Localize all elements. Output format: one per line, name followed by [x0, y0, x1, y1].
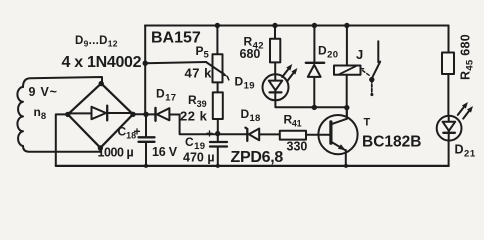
diode inside bridge: [92, 107, 107, 119]
svg-text:4 x 1N4002: 4 x 1N4002: [62, 54, 142, 71]
node ground C19: [216, 164, 220, 168]
svg-text:330: 330: [287, 140, 308, 154]
node mid rail collector: [344, 105, 349, 110]
wire R42 branch from rail: [274, 26, 276, 39]
LED D21 light arrow 1: [462, 102, 468, 109]
resistor R39 body: [213, 92, 223, 119]
capacitor C19 plates: [210, 141, 227, 143]
svg-text:9 V~: 9 V~: [29, 85, 58, 99]
LED D21 arrow shafts: [458, 106, 465, 115]
svg-text:T: T: [364, 117, 371, 129]
svg-text:47 k: 47 k: [185, 66, 213, 81]
wire bridge internal right: [108, 112, 132, 114]
wire left vertical from rail to bridge output: [144, 26, 146, 115]
node rail P5: [215, 23, 220, 28]
transistor collector: [331, 108, 347, 125]
relay J coil from rail: [346, 26, 348, 66]
svg-text:16 V: 16 V: [152, 145, 178, 159]
LED D21 internal diode: [448, 116, 450, 141]
transistor T BC182B circle: [318, 115, 357, 154]
P5 wiper arrowhead: [221, 71, 227, 76]
wire R41 to base: [306, 134, 330, 136]
wire P5 top from rail: [216, 26, 218, 55]
capacitor C18 plates: [139, 136, 155, 138]
node ground emitter: [344, 164, 348, 168]
svg-text:22 k: 22 k: [180, 109, 208, 124]
LED D19 light arrow 1: [286, 64, 292, 71]
switch J fixed contact: [377, 41, 379, 62]
arrows and arrowheads (filled): [221, 64, 473, 150]
svg-text:680: 680: [240, 47, 261, 61]
svg-text:+: +: [134, 125, 141, 139]
node rail D20: [312, 23, 317, 28]
emitter arrowhead: [338, 144, 346, 150]
node wiper feed tap: [143, 61, 148, 66]
wire bottom ground rail: [56, 165, 449, 167]
wire bridge right corner to node A: [133, 113, 146, 115]
wire top rail: [145, 25, 449, 27]
wire node A to wiper feed: [145, 62, 206, 63]
switch J moving arm: [372, 62, 381, 79]
transistor base bar: [329, 122, 332, 143]
potentiometer P5 wiper arrow diagonal: [206, 62, 224, 74]
LED D21 circle: [437, 116, 462, 141]
svg-text:BC182B: BC182B: [362, 134, 421, 151]
wire R39 to node B: [217, 119, 219, 133]
wire middle rail: [275, 100, 346, 107]
zener diode D18 ZPD6.8: [246, 128, 248, 141]
diode D20 from rail: [313, 26, 315, 63]
node ground C18: [144, 164, 148, 168]
wire transformer top lead to bridge top corner: [23, 77, 102, 87]
wire transformer bottom lead to bridge bottom corner: [23, 146, 100, 152]
LED D19 arrow shafts: [282, 69, 289, 78]
node B R39/C19/D18: [215, 131, 220, 136]
LED D19 internal diode: [274, 74, 276, 100]
resistor R41 body: [280, 131, 306, 140]
svg-text:470 µ: 470 µ: [183, 151, 215, 165]
diode D17: [146, 113, 155, 115]
switch J lower stub: [371, 80, 373, 95]
wire bridge left corner to ground drop: [56, 114, 68, 165]
wire D17 down to node B rail: [180, 115, 247, 135]
node switch stub end: [370, 93, 373, 96]
svg-text:ZPD6,8: ZPD6,8: [231, 149, 284, 166]
node bridge right: [130, 112, 135, 117]
wire R42 to LED D19: [274, 62, 276, 74]
svg-text:BA157: BA157: [151, 30, 201, 47]
relay contact dashed link: [363, 71, 370, 76]
svg-text:J: J: [356, 47, 363, 62]
wire R45 to LED D21: [447, 74, 449, 116]
capacitor C18 leads: [145, 114, 147, 137]
node rail R42: [272, 23, 277, 28]
node bridge left: [65, 112, 70, 117]
node bridge top: [99, 81, 104, 86]
wire relay to collector node: [346, 75, 348, 119]
node switch pivot: [369, 77, 374, 82]
svg-text:+: +: [206, 127, 213, 141]
wire R45 branch from rail corner: [448, 26, 450, 53]
node bridge bottom: [98, 145, 103, 150]
resistor R45 body: [442, 53, 454, 75]
resistor R42 body: [270, 39, 280, 63]
potentiometer P5 body: [213, 54, 223, 82]
transistor emitter: [331, 142, 345, 150]
capacitor C19 leads: [217, 134, 219, 142]
node rail relay: [344, 23, 349, 28]
node mid rail D20: [312, 105, 317, 110]
svg-text:1000 µ: 1000 µ: [98, 146, 134, 160]
LED D19 light arrow 2: [291, 68, 297, 75]
relay J coil body: [334, 66, 361, 75]
wire bridge internal left: [70, 112, 92, 114]
wire LED D21 to ground rail: [448, 141, 450, 166]
wire P5 to R39: [217, 82, 219, 92]
transformer T1 winding n8: [17, 87, 23, 146]
node A bridge output: [143, 112, 148, 117]
LED D19 circle: [263, 74, 289, 100]
bridge rectifier B1 diamond: [68, 83, 133, 147]
LED D21 light arrow 2: [467, 106, 473, 113]
